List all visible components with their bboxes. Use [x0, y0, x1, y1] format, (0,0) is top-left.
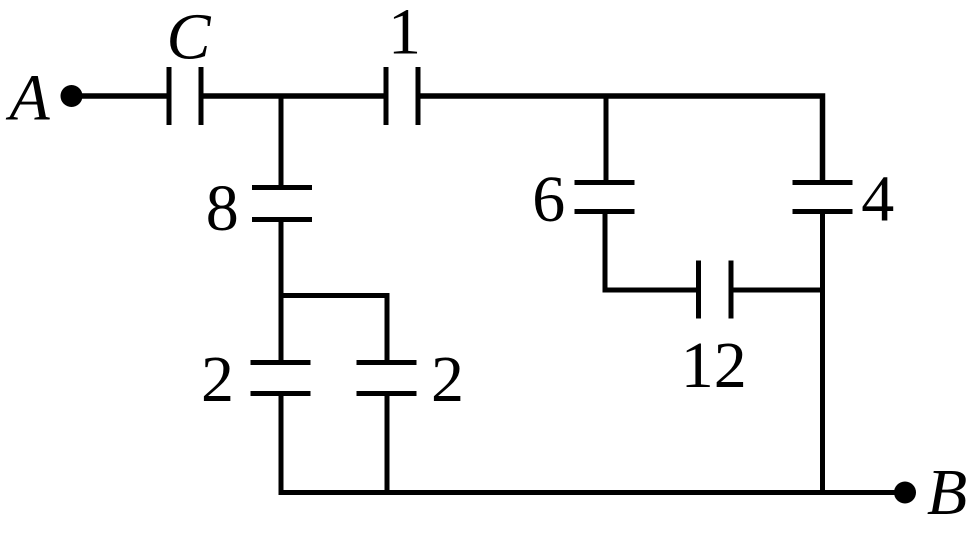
- svg-text:8: 8: [206, 172, 239, 245]
- capacitor C plates: [167, 67, 172, 125]
- terminal dot A: [61, 85, 83, 107]
- svg-text:2: 2: [431, 343, 464, 416]
- capacitor 8 plates: [252, 185, 312, 190]
- svg-text:2: 2: [201, 343, 234, 416]
- wire cap 8 down to left cap 2: [279, 220, 284, 363]
- capacitor 4 plates: [793, 180, 853, 185]
- svg-text:4: 4: [861, 163, 894, 236]
- svg-text:A: A: [5, 62, 50, 135]
- wire right cap 2 down to bottom rail: [385, 394, 390, 493]
- capacitor 12 plates: [696, 261, 701, 319]
- wire C to cap 1: [201, 93, 386, 99]
- terminal dot B: [894, 482, 916, 504]
- svg-text:6: 6: [532, 163, 565, 236]
- svg-text:1: 1: [388, 0, 421, 69]
- capacitor 2 (left) plates: [251, 360, 311, 365]
- svg-text:12: 12: [681, 329, 747, 402]
- svg-text:B: B: [927, 456, 967, 529]
- svg-text:C: C: [166, 1, 211, 74]
- wire cap 6 down to 12-rail: [605, 212, 699, 291]
- wire junction to cap 6 branch: [604, 96, 609, 183]
- right rail: cap 4 down to bottom: [820, 212, 825, 493]
- capacitor 6 plates: [575, 180, 635, 185]
- wire cap1 to top-right corner: [418, 96, 823, 183]
- capacitor 1 plates: [384, 67, 389, 125]
- wire junction to right 2-branch: [279, 296, 388, 363]
- wire cap 12 to right rail: [731, 288, 823, 293]
- node junction at 8-branch: [279, 96, 284, 187]
- wire A to C: [71, 93, 169, 99]
- wire left cap 2 down to bottom rail: [281, 394, 905, 493]
- capacitor 2 (right) plates: [357, 360, 417, 365]
